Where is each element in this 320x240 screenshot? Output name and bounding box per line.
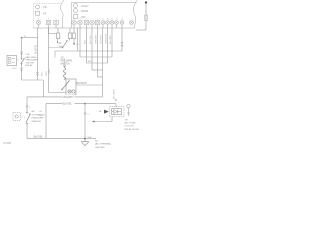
svg-text:SYSTEM 450: SYSTEM 450 [32, 114, 46, 116]
BLK stub label [85, 138, 96, 140]
terminal square x56 [54, 20, 58, 25]
svg-text:BLK: BLK [88, 137, 93, 139]
relay coil connector right [127, 104, 130, 107]
svg-text:GRN/ORG: GRN/ORG [106, 33, 108, 44]
svg-text:BLU: BLU [42, 71, 44, 76]
svg-text:NO: NO [95, 141, 99, 143]
svg-text:BLK/YEL: BLK/YEL [34, 44, 37, 54]
jumper y63 [86, 28, 88, 63]
svg-text:BLU/BLK: BLU/BLK [110, 34, 112, 44]
terminal circle-x x107.5 [106, 21, 110, 25]
svg-text:BLK/YEL: BLK/YEL [63, 104, 73, 106]
svg-text:YEL/RED: YEL/RED [101, 34, 103, 44]
svg-text:A/C: A/C [59, 42, 63, 45]
wire into diode box [115, 104, 117, 107]
ground symbol [84, 139, 86, 142]
svg-text:2: 2 [92, 18, 93, 20]
svg-text:RELAY DIODE: RELAY DIODE [125, 128, 140, 131]
svg-text:11: 11 [111, 18, 113, 20]
terminal circle-x x74 [72, 20, 77, 25]
box bottom line [34, 27, 135, 29]
diode assembly dashed box [110, 107, 125, 117]
terminal square x97.5 [95, 20, 99, 25]
svg-text:A/C: A/C [32, 110, 36, 113]
svg-text:BLU/RED: BLU/RED [113, 89, 115, 99]
terminal square x48.5 [46, 20, 50, 25]
right curvy edge [133, 0, 137, 28]
legend circle KB [36, 5, 40, 9]
svg-text:FAN SW40: FAN SW40 [61, 60, 73, 63]
wire x92 [91, 28, 93, 70]
jumper y77 [98, 76, 103, 78]
svg-text:1: 1 [74, 18, 75, 20]
svg-text:9: 9 [56, 18, 57, 20]
wire from terminal down to pressure switch [48, 28, 50, 93]
svg-text:FAN SW40: FAN SW40 [26, 56, 38, 59]
terminal square x86.5 [84, 20, 88, 25]
terminal circle-x x131.5 [130, 21, 134, 25]
terminal circle-x x103 [101, 21, 105, 25]
terminal circle-x x80 [78, 20, 83, 25]
jumper y70 [92, 69, 103, 71]
svg-text:BLK/YEL: BLK/YEL [34, 137, 44, 139]
blower resistor coil [63, 68, 65, 80]
legend square KF [36, 11, 40, 15]
legend circle LIGHT [74, 4, 78, 8]
svg-text:BLU/WHT: BLU/WHT [77, 83, 88, 85]
svg-text:5: 5 [80, 18, 81, 20]
svg-text:- KB: - KB [42, 5, 47, 9]
pressure switch box [66, 79, 76, 95]
AC switch lamps [57, 28, 59, 33]
svg-text:6: 6 [103, 18, 104, 20]
relay switch on wire [17, 59, 21, 61]
terminal stubs to box bottom [39, 25, 123, 28]
svg-text:SWITCH: SWITCH [26, 62, 35, 64]
AC switch arm [57, 42, 58, 43]
svg-text:8: 8 [48, 18, 49, 20]
svg-text:SENSOR: SENSOR [32, 121, 42, 123]
svg-text:- DIMM: - DIMM [80, 9, 89, 13]
terminal circle-x x38.5 [36, 20, 41, 25]
svg-text:RELAY: RELAY [26, 64, 34, 67]
svg-text:GRN: GRN [49, 69, 51, 74]
svg-text:- KF: - KF [42, 11, 47, 15]
svg-text:3: 3 [38, 18, 39, 20]
svg-text:BLK: BLK [85, 39, 87, 44]
splice from BLK/YEL wire [21, 37, 23, 39]
wire bundle divider curve [60, 0, 64, 28]
svg-text:7: 7 [86, 18, 87, 20]
svg-text:BLU/YEL: BLU/YEL [90, 34, 92, 44]
bottom BLK/YEL run to ground [27, 138, 85, 140]
horizontal jumper y51 [55, 50, 122, 52]
svg-text:PRESSURE: PRESSURE [26, 60, 39, 62]
svg-text:12: 12 [116, 18, 118, 20]
terminal circle-x x112 [110, 21, 114, 25]
terminal circle-x x122 [120, 21, 124, 25]
wire BLK/YEL left vertical [37, 28, 39, 80]
power feed wire top right [145, 1, 147, 3]
legend circle DIM [74, 9, 78, 13]
svg-text:G401: G401 [12, 68, 18, 70]
jumper y57 [79, 28, 81, 57]
BLU/WHT wire right of switch [76, 84, 103, 86]
svg-text:GROUND: GROUND [95, 147, 105, 149]
gauge assembly outline right compartment [72, 3, 137, 29]
terminal circle-x x92 [90, 20, 95, 25]
svg-text:4: 4 [97, 18, 98, 20]
svg-text:ORG/WHT: ORG/WHT [63, 97, 75, 99]
gauge assembly outline left compartment [34, 4, 62, 29]
wire down through switch [21, 38, 23, 59]
svg-text:GRN/WHT: GRN/WHT [96, 33, 98, 44]
BLK/YEL bus [46, 103, 116, 105]
ground feed vertical [84, 104, 86, 139]
AC pressure sensor left [26, 97, 28, 112]
svg-text:10: 10 [107, 18, 109, 20]
svg-text:(A/C THERMAL): (A/C THERMAL) [95, 143, 111, 146]
svg-text:ORG: ORG [46, 71, 48, 76]
legend square IND [74, 15, 78, 19]
ORG/WHT bus [27, 96, 103, 98]
svg-text:CLUTCH: CLUTCH [125, 126, 134, 128]
svg-text:F0702B: F0702B [3, 143, 12, 145]
blower relay box [7, 56, 17, 66]
svg-text:PRESSURE: PRESSURE [32, 118, 45, 120]
svg-text:C/B: C/B [26, 54, 30, 56]
corner to pin drop [22, 79, 44, 81]
terminal circle-x x116.5 [115, 21, 119, 25]
svg-text:13: 13 [121, 18, 123, 20]
svg-text:- LIGHT: - LIGHT [80, 4, 90, 8]
terminal row [36, 20, 133, 25]
wire x74 short with lamp [73, 28, 75, 33]
svg-text:A/C COMP: A/C COMP [125, 122, 136, 125]
diode bottom feed [111, 117, 113, 122]
